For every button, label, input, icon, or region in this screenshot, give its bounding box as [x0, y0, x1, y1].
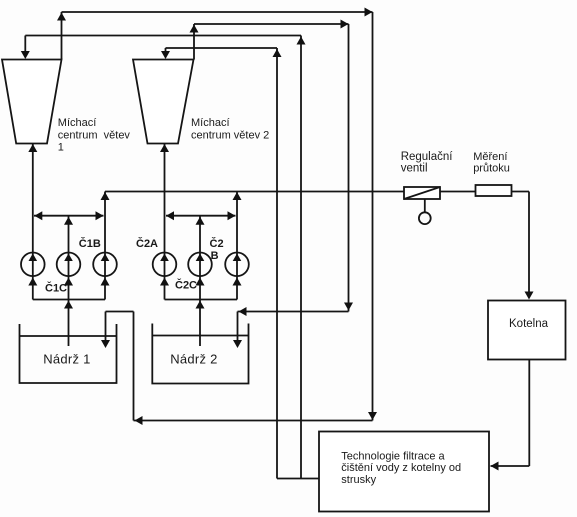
svg-text:Nádrž 2: Nádrž 2	[170, 352, 217, 367]
wire supply line 1 horizontal y=35.5	[25, 35, 301, 37]
arrow left at corner (133.5,420.5)	[135, 416, 143, 425]
svg-text:Nádrž 1: Nádrž 1	[43, 352, 90, 367]
arrow up inside pump R1	[101, 254, 110, 262]
wire return line 2 horizontal y=311.5	[238, 311, 349, 313]
wire return line 1 right drop x=372.5	[372, 12, 374, 421]
svg-text:centrum větev 2: centrum větev 2	[191, 130, 269, 142]
svg-text:1: 1	[58, 142, 64, 154]
discharge header between valve and meter	[440, 191, 476, 193]
arrow left end double arrow 1	[34, 211, 42, 220]
arrow up inside pump M1	[64, 254, 73, 262]
svg-text:Č1C: Č1C	[45, 282, 67, 295]
arrow down into Kotelna (529,299.5)	[525, 292, 534, 300]
wire supply line 1 drop into hopper 1	[24, 36, 26, 54]
svg-text:Č2A: Č2A	[136, 237, 158, 250]
arrow left end double arrow 2	[166, 211, 174, 220]
pump M1 circle	[57, 252, 81, 276]
wire return line 1 jog y=311.5	[106, 311, 134, 313]
wire supply riser 1 x=301 from filtration	[300, 36, 302, 479]
mixing center 2 hopper (Míchací centrum větev 2)	[133, 60, 194, 144]
svg-text:čištění vody z kotelny od: čištění vody z kotelny od	[341, 462, 461, 474]
svg-text:Měření: Měření	[473, 151, 507, 163]
pump group 2: right stem x=237	[236, 192, 238, 300]
wire supply riser 2 x=277 from filtration	[276, 48, 278, 479]
svg-text:průtoku: průtoku	[473, 163, 510, 175]
svg-text:Regulační: Regulační	[401, 151, 454, 163]
valve actuator circle	[419, 212, 431, 224]
wire return line 1 drop into tank 1	[105, 312, 107, 343]
arrow up tank 2 riser at header (200,300.5)	[196, 301, 205, 309]
arrow up tank 1 riser at header (68.5,300.5)	[64, 301, 73, 309]
arrow right at corner (348.5,24)	[341, 20, 349, 29]
arrow right end double arrow 1	[96, 211, 104, 220]
arrow down into hopper 1 (25.3,59)	[21, 51, 30, 59]
wire supply line 2 drop into hopper 2	[165, 48, 167, 53]
valve actuator stem	[424, 199, 426, 212]
arrow down at corner (372.5,420)	[368, 412, 377, 420]
svg-text:Č1B: Č1B	[79, 237, 101, 250]
svg-text:Č2: Č2	[210, 237, 224, 250]
arrow up below pump M1	[64, 278, 73, 286]
arrow up into hopper 2 bottom (164.5,144)	[160, 144, 169, 152]
arrow up at node (61.5,12)	[57, 13, 66, 21]
tank 2 walls (Nádrž 2)	[152, 324, 248, 384]
arrow up inside pump L1	[29, 254, 38, 262]
pump L2 circle	[153, 252, 177, 276]
tank 1 walls (Nádrž 1)	[20, 324, 117, 383]
wire return line 2 right drop x=348.5	[348, 24, 350, 312]
arrow up inside pump M2	[196, 254, 205, 262]
wire return line 1 rise x=133.5	[133, 312, 135, 421]
pump group 1: middle stem x=68.5	[68, 217, 70, 347]
mixing center 1 hopper (Míchací centrum větev 1)	[2, 60, 62, 144]
arrow down into hopper 2 (165.5,59)	[161, 51, 170, 59]
svg-text:Kotelna: Kotelna	[509, 318, 549, 330]
arrow right at corner (372.5,12)	[365, 8, 373, 17]
control valve body (Regulační ventil)	[404, 187, 440, 199]
pump group 1: left stem x=32.8 (to hopper 1 bottom)	[32, 144, 34, 300]
svg-text:Míchací: Míchací	[58, 117, 97, 129]
wire drop to boiler house x=529	[528, 192, 530, 295]
flow meter body (Měření průtoku)	[476, 185, 512, 196]
svg-text:Technologie filtrace a: Technologie filtrace a	[341, 451, 445, 463]
arrow up at header tee (237,192)	[233, 192, 242, 200]
arrow left into filtration box (490.5,466)	[491, 462, 499, 471]
discharge header y=191.5 left of valve	[105, 191, 404, 193]
svg-text:strusky: strusky	[341, 474, 376, 486]
tank 1 water level line	[20, 335, 117, 337]
arrow up below pump R1	[101, 278, 110, 286]
wire return line 2 top horizontal y=24	[194, 23, 349, 25]
tank 2 water level line	[152, 335, 248, 337]
arrow down into tank 1 (105.5,348)	[101, 340, 110, 348]
arrow up below pump L2	[160, 278, 169, 286]
arrow up inside pump R2	[233, 254, 242, 262]
arrow up below pump M2	[196, 278, 205, 286]
wire return line 1 bottom horizontal y=420.5	[134, 420, 373, 422]
svg-text:B: B	[211, 250, 219, 262]
arrow down at corner (348.5,311)	[344, 303, 353, 311]
pump group 2: left stem x=164.5 (to hopper 2 bottom)	[164, 144, 166, 300]
arrow up below pump L1	[28, 278, 37, 286]
pump M2 circle	[188, 252, 212, 276]
valve diagonal	[404, 187, 440, 199]
wire filtration outlet bottom y=478.5	[277, 478, 319, 480]
wire return line 1 riser from hopper 1 top	[61, 12, 63, 60]
arrow up mid stem 1 (68.5,217)	[64, 217, 73, 225]
arrow up at header corner (105,192)	[101, 192, 110, 200]
svg-text:ventil: ventil	[401, 163, 428, 175]
svg-text:Č2C: Č2C	[175, 279, 197, 292]
suction header group 2 y=299.5	[165, 299, 238, 301]
boiler house box Kotelna	[488, 301, 566, 360]
wire return line 2 riser from hopper 2 top	[193, 24, 195, 60]
filtration technology box	[319, 432, 489, 512]
arrow up into hopper 1 bottom (32.8,144)	[28, 144, 37, 152]
svg-text:centrum větev: centrum větev	[58, 130, 131, 142]
wire Kotelna outlet drop x=529.3	[528, 360, 530, 467]
discharge header after meter	[512, 191, 530, 193]
arrow up inside pump L2	[160, 254, 169, 262]
arrow up at corner (277,48)	[273, 49, 282, 57]
double arrow group 1 y=215.7	[34, 215, 104, 217]
svg-text:Míchací: Míchací	[191, 117, 230, 129]
arrow right end double arrow 2	[228, 211, 236, 220]
arrow up mid stem 2 (200,217)	[196, 217, 205, 225]
wire supply line 2 horizontal y=48	[166, 47, 278, 49]
pump R2 circle	[225, 252, 249, 276]
arrow up at node (194,24)	[190, 25, 199, 33]
pump L1 circle	[21, 252, 45, 276]
double arrow group 2 y=215.7	[166, 215, 236, 217]
pump group 1: right stem x=105	[104, 192, 106, 300]
suction header group 1 y=299.5	[33, 299, 105, 301]
arrow up below pump R2	[233, 278, 242, 286]
wire Kotelna to filtration y=466	[491, 465, 530, 467]
pump R1 circle	[93, 252, 117, 276]
pump group 2: middle stem x=200	[199, 217, 201, 347]
arrow left at corner (237.5,311.5)	[239, 307, 247, 316]
arrow down into tank 2 (237.5,348)	[233, 340, 242, 348]
wire return line 1 top horizontal y=12	[62, 11, 373, 13]
arrow up at corner (301,35.5)	[297, 37, 306, 45]
wire return line 2 drop into tank 2	[237, 312, 239, 343]
